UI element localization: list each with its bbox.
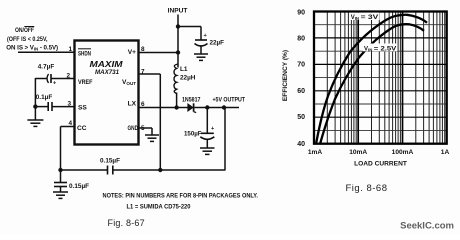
svg-text:SeekIC.com: SeekIC.com	[400, 221, 454, 232]
wire pin4 CC	[61, 127, 75, 171]
svg-text:LOAD CURRENT: LOAD CURRENT	[354, 161, 407, 168]
chart grid major horizontal lines	[314, 38, 447, 117]
capacitor C3 22uF (polarized)	[195, 33, 208, 54]
wire pin1 SHDN	[18, 51, 74, 53]
pin number 1	[68, 46, 72, 53]
label 0.15uF (series)	[100, 158, 120, 165]
svg-text:MAX731: MAX731	[95, 70, 120, 76]
node junction V+ / input	[176, 50, 180, 54]
ground (left bus)	[27, 120, 43, 126]
caption Fig. 8-68	[346, 183, 388, 194]
label VIN = 2.5V	[363, 44, 398, 53]
svg-text:150µF: 150µF	[184, 131, 202, 138]
svg-text:INPUT: INPUT	[168, 8, 188, 15]
curve VIN=2.5V	[320, 24, 424, 144]
inductor L1	[174, 64, 178, 108]
node junction VOUT / compensation line	[158, 168, 162, 172]
capacitor C1 4.7uF (polarized)	[47, 74, 74, 87]
label VIN = 3V	[350, 13, 380, 21]
IC U1 pin name CC	[77, 125, 87, 132]
label 150uF	[184, 131, 202, 138]
svg-text:Fig. 8-67: Fig. 8-67	[108, 218, 145, 228]
capacitor C4 150uF (polarized)	[200, 108, 215, 148]
label L1	[180, 66, 188, 73]
notes text	[103, 193, 259, 211]
label ON/OFF control note	[6, 27, 58, 52]
node junction L1 / LX	[174, 105, 178, 109]
label INPUT	[168, 8, 188, 15]
pin number 3	[67, 101, 71, 108]
svg-text:+: +	[211, 126, 215, 132]
svg-text:50: 50	[297, 114, 305, 121]
wire compensation line horizontal	[61, 108, 226, 171]
svg-text:GND: GND	[128, 125, 139, 132]
svg-text:ON/OFF: ON/OFF	[15, 27, 34, 34]
caption Fig. 8-67	[108, 218, 145, 228]
node junction CC / compensation line	[58, 168, 62, 172]
ground (shunt 0.15uF)	[53, 192, 68, 198]
label 1N5817	[182, 97, 201, 104]
IC U1 pin name VOUT	[122, 79, 136, 86]
IC U1 pin name LX	[128, 101, 137, 108]
IC U1 pin name V+	[128, 49, 136, 56]
svg-text:IN: IN	[355, 16, 359, 21]
svg-text:22µF: 22µF	[210, 40, 225, 47]
svg-text:L1: L1	[180, 66, 188, 73]
svg-text:90: 90	[297, 10, 305, 17]
svg-text:+: +	[204, 33, 208, 39]
wire pin6 LX to output	[139, 107, 239, 109]
svg-text:IN: IN	[368, 47, 372, 52]
svg-text:VREF: VREF	[78, 79, 93, 86]
chart frame	[314, 12, 447, 144]
IC U1 pin name GND	[128, 125, 139, 132]
wire pin7 VOUT	[139, 74, 160, 170]
wire pin2 VREF left	[35, 78, 46, 80]
svg-text:0.1µF: 0.1µF	[36, 94, 53, 101]
svg-text:SS: SS	[78, 105, 87, 112]
IC U1 part number MAX731	[95, 70, 120, 76]
node junction output / 150uF	[205, 105, 209, 109]
IC U1 logo MAXIM	[90, 59, 124, 69]
svg-text:Fig. 8-68: Fig. 8-68	[346, 183, 388, 194]
svg-text:1A: 1A	[441, 149, 450, 156]
IC U1 pin name SHDN (active low)	[78, 49, 91, 58]
svg-text:ON IS > VIN - 0.5V): ON IS > VIN - 0.5V)	[6, 45, 58, 52]
svg-text:L1 = SUMIDA CD75-220: L1 = SUMIDA CD75-220	[127, 204, 192, 211]
diode D1 1N5817	[188, 103, 197, 112]
svg-text:LX: LX	[128, 101, 137, 108]
wire pin3 SS left	[35, 106, 47, 108]
chart y-axis labels	[297, 10, 305, 149]
chart y-axis title EFFICIENCY (%)	[282, 50, 289, 101]
wire pin8 V+	[139, 52, 178, 54]
pin number 2	[66, 73, 70, 80]
node junction left bus / SS	[33, 104, 37, 108]
svg-text:= 3V: = 3V	[361, 15, 379, 21]
chart grid decade vertical lines	[358, 12, 402, 144]
label 0.1uF	[36, 94, 53, 101]
IC U1 MAX731 body	[75, 41, 139, 145]
svg-text:MAXIM: MAXIM	[90, 59, 124, 69]
ground (150uF)	[200, 148, 215, 154]
svg-text:40: 40	[297, 141, 305, 148]
pin number 8	[141, 46, 145, 53]
wire left bus vertical	[34, 78, 36, 120]
IC U1 pin name SS	[78, 105, 87, 112]
watermark SeekIC.com	[400, 221, 454, 232]
label +5V OUTPUT	[213, 97, 246, 104]
svg-text:0.15µF: 0.15µF	[100, 158, 120, 165]
wire pin5 GND	[139, 128, 152, 135]
chart grid minor vertical lines	[327, 12, 444, 144]
ground (22uF)	[194, 54, 208, 60]
label 22uF	[210, 40, 225, 47]
svg-text:0.15µF: 0.15µF	[69, 183, 89, 190]
svg-text:1mA: 1mA	[308, 149, 323, 156]
capacitor C5 0.15uF (series, compensation)	[108, 166, 113, 175]
svg-text:(OFF IS < 0.25V,: (OFF IS < 0.25V,	[7, 36, 48, 43]
pin number 6	[141, 101, 145, 108]
svg-text:= 2.5V: = 2.5V	[374, 46, 397, 52]
capacitor C6 0.15uF (shunt to ground)	[54, 170, 67, 192]
svg-text:SHDN: SHDN	[78, 51, 91, 58]
ground (GND pin 5)	[145, 135, 159, 141]
label 0.15uF (shunt)	[69, 183, 89, 190]
svg-text:4.7µF: 4.7µF	[38, 64, 55, 71]
label 4.7uF	[38, 64, 55, 71]
node junction input / 22uF	[176, 24, 180, 28]
pin number 5	[141, 125, 145, 132]
svg-text:80: 80	[297, 35, 305, 42]
svg-text:70: 70	[297, 61, 305, 68]
svg-text:+: +	[53, 81, 57, 87]
svg-text:CC: CC	[77, 125, 87, 132]
chart x-axis title LOAD CURRENT	[354, 161, 407, 168]
svg-text:10mA: 10mA	[349, 149, 367, 156]
svg-text:100mA: 100mA	[392, 149, 414, 156]
svg-text:V+: V+	[128, 49, 136, 56]
curve VIN=3V	[316, 15, 427, 144]
chart grid minor horizontal lines	[314, 25, 447, 131]
svg-text:1N5817: 1N5817	[182, 97, 201, 104]
svg-text:22µH: 22µH	[180, 75, 196, 82]
svg-text:NOTES: PIN NUMBERS ARE FOR 8-P: NOTES: PIN NUMBERS ARE FOR 8-PIN PACKAGE…	[103, 193, 259, 200]
svg-text:EFFICIENCY (%): EFFICIENCY (%)	[282, 50, 289, 101]
node junction output / feedback drop	[222, 105, 226, 109]
IC U1 pin name VREF	[78, 79, 93, 86]
pin number 4	[68, 120, 72, 127]
pin number 7	[141, 69, 145, 76]
wire to C3 22uF	[178, 27, 201, 40]
label 22uH	[180, 75, 196, 82]
chart x-axis labels	[308, 149, 450, 156]
svg-text:60: 60	[297, 88, 305, 95]
svg-text:+5V OUTPUT: +5V OUTPUT	[213, 97, 246, 104]
capacitor C2 0.1uF	[48, 102, 74, 111]
svg-text:VOUT: VOUT	[122, 79, 136, 86]
wire input vertical	[177, 15, 179, 68]
